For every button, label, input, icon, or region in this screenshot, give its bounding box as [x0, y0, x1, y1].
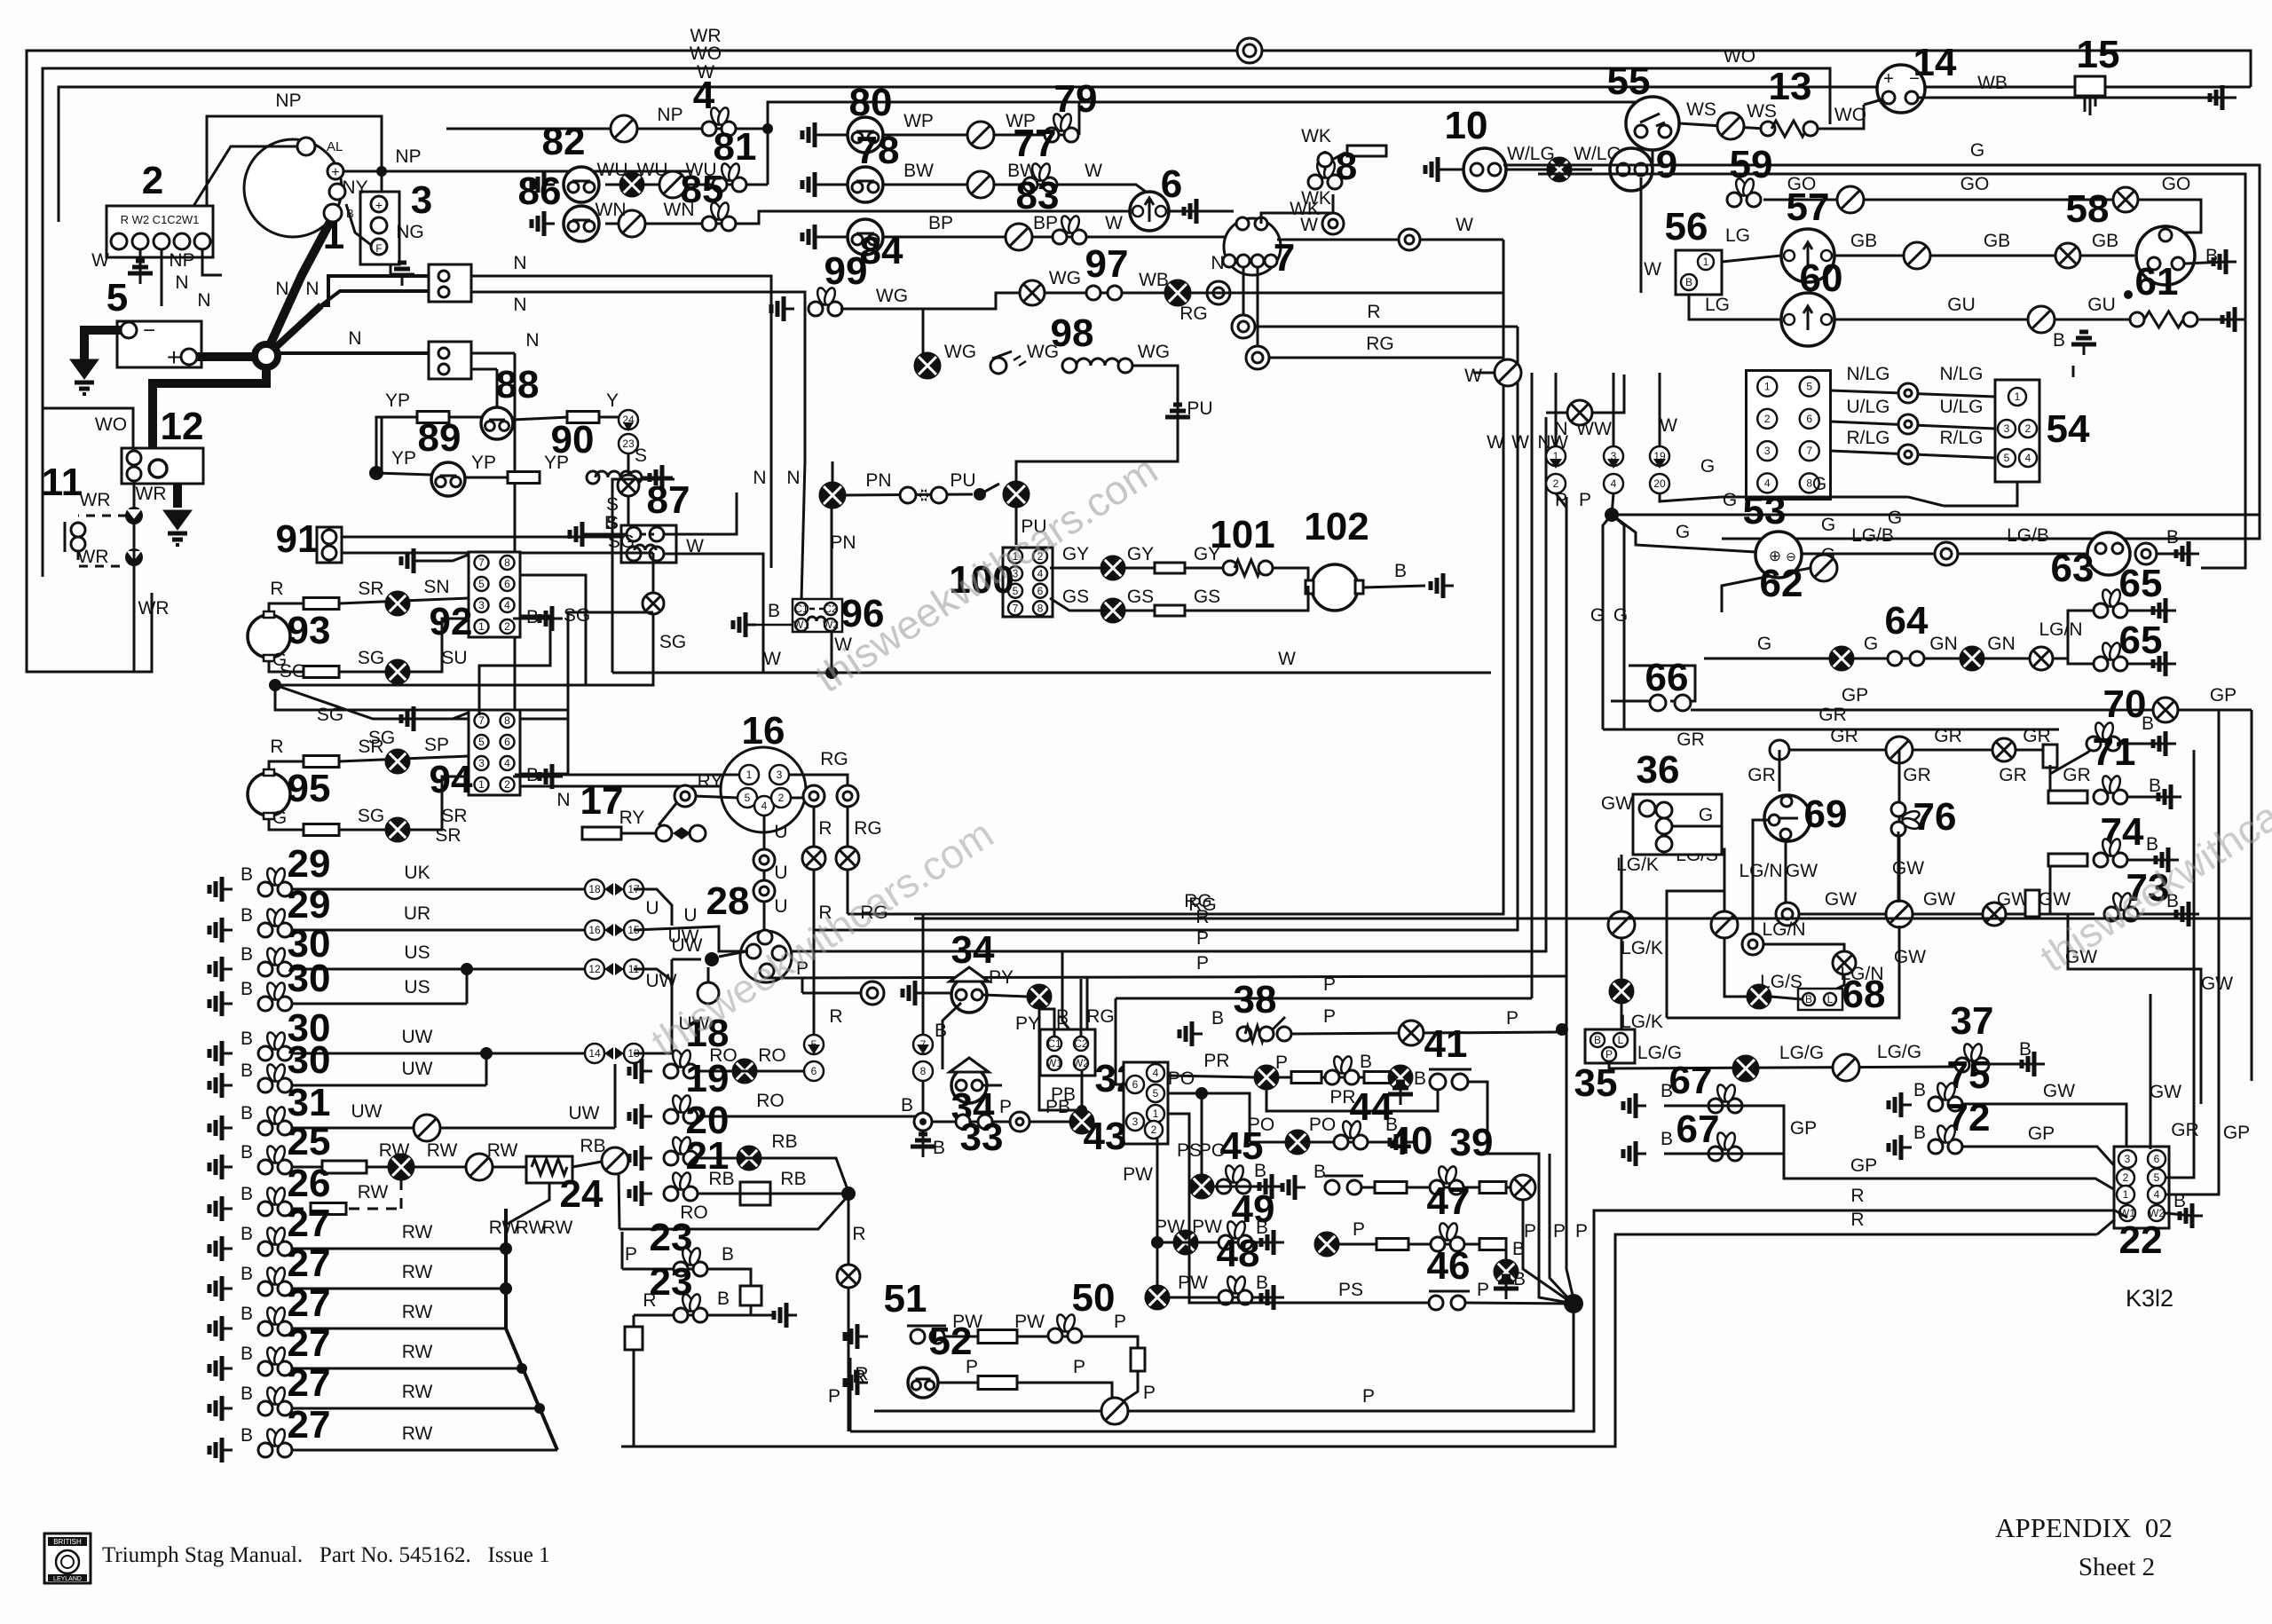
- svg-text:W: W: [1278, 649, 1296, 669]
- wire WLG row: [1506, 169, 1592, 171]
- connector 56: [1676, 250, 1722, 295]
- svg-text:56: 56: [1665, 205, 1708, 248]
- svg-text:N/LG: N/LG: [1846, 364, 1889, 384]
- bowtie 17: [673, 827, 690, 840]
- wire GR bus: [1603, 729, 2059, 731]
- wire N to 16: [515, 353, 721, 786]
- svg-text:83: 83: [1016, 174, 1060, 217]
- snap connector 83: [1053, 215, 1086, 244]
- svg-text:5: 5: [1806, 381, 1812, 393]
- pin 3 22: [2118, 1150, 2136, 1168]
- svg-text:AL: AL: [327, 139, 343, 154]
- svg-text:N: N: [305, 279, 319, 299]
- svg-text:W: W: [1594, 419, 1612, 439]
- svg-text:33: 33: [960, 1116, 1004, 1159]
- snap connector 75: [1929, 1082, 1962, 1111]
- snap connector row 27: [258, 1266, 292, 1296]
- pin 38 a: [1237, 1027, 1251, 1041]
- snap connector 59: [1727, 177, 1761, 207]
- wire G of 95: [269, 819, 304, 830]
- svg-text:GU: GU: [2087, 295, 2116, 315]
- svg-text:41: 41: [1424, 1022, 1468, 1066]
- fuse 23: [740, 1286, 761, 1305]
- svg-text:GW: GW: [1786, 861, 1818, 881]
- svg-text:55: 55: [1607, 59, 1651, 103]
- wire NG from comp1 to comp3 F: [346, 204, 371, 245]
- junction PB: [1077, 1105, 1087, 1116]
- svg-text:NP: NP: [395, 146, 421, 167]
- resistor 101: [1235, 560, 1261, 576]
- svg-text:B: B: [1414, 1068, 1426, 1089]
- wire 38 row: [1291, 1032, 1558, 1034]
- wire 101 to 102: [1273, 568, 1308, 586]
- snap connector 48: [1219, 1275, 1252, 1305]
- pin C2 87: [650, 527, 664, 541]
- svg-text:4: 4: [693, 74, 715, 117]
- ground 10: [1425, 157, 1448, 182]
- thick earth from 12: [173, 484, 182, 508]
- ring RY: [674, 785, 696, 807]
- svg-text:B: B: [1313, 1162, 1326, 1182]
- ground 70: [2153, 731, 2176, 756]
- wire G from 20: [1660, 493, 1722, 501]
- connector 35: [1585, 1029, 1635, 1063]
- ground 65b: [2153, 651, 2176, 676]
- lamp R: [802, 847, 825, 870]
- svg-text:34: 34: [951, 928, 995, 972]
- wire R from 16: [790, 785, 814, 798]
- wire 46 to junction: [1465, 1303, 1574, 1304]
- pin W2 22: [2149, 1205, 2165, 1221]
- wire GU row: [1834, 319, 2130, 321]
- svg-text:4: 4: [1764, 477, 1771, 489]
- voltage regulator 3: [360, 192, 399, 264]
- fuse 47: [1377, 1239, 1408, 1250]
- svg-text:LG/G: LG/G: [1877, 1042, 1921, 1062]
- svg-text:RB: RB: [708, 1169, 734, 1189]
- pin 34a l: [956, 989, 966, 1000]
- wire UK elbow: [634, 889, 672, 926]
- svg-text:W: W: [1085, 161, 1102, 181]
- svg-text:PY: PY: [1015, 1013, 1040, 1034]
- terminal B of 1: [324, 204, 342, 222]
- snap connector 4: [702, 106, 736, 136]
- svg-text:RW: RW: [487, 1140, 518, 1161]
- svg-text:B: B: [241, 905, 253, 926]
- svg-text:C2: C2: [1074, 1037, 1088, 1050]
- wire G diag: [1722, 568, 1810, 612]
- connector 18 17 pin a: [585, 879, 604, 899]
- svg-text:B: B: [241, 1060, 253, 1081]
- svg-text:8: 8: [920, 1065, 927, 1077]
- wire SR 95: [339, 756, 469, 761]
- svg-text:PW: PW: [1178, 1273, 1208, 1293]
- svg-text:65: 65: [2119, 619, 2163, 662]
- wire 67a row: [1664, 1106, 1784, 1154]
- svg-text:66: 66: [1645, 656, 1689, 699]
- wire N lower from blob: [278, 351, 429, 355]
- wire 48 row: [1169, 1297, 1272, 1299]
- connector 14 13 pin a: [585, 1044, 604, 1063]
- wire G 53: [1908, 497, 1944, 506]
- svg-text:⊕: ⊕: [1769, 548, 1781, 564]
- connector WS: [1717, 113, 1744, 139]
- svg-text:P: P: [1114, 1312, 1126, 1332]
- junction PW: [1151, 1236, 1164, 1249]
- junction YP: [369, 466, 383, 480]
- switch 16: [721, 747, 806, 832]
- snap connector row 30: [258, 981, 292, 1011]
- terminal AL of 1: [297, 138, 315, 155]
- wire WR bus top: [27, 51, 2251, 430]
- svg-text:P: P: [1605, 1048, 1613, 1060]
- wire GP 4 right: [2165, 710, 2219, 1194]
- wire R into W1: [2115, 1210, 2127, 1218]
- wire row 27: [293, 1288, 506, 1290]
- wire WK up2: [1324, 151, 1327, 170]
- junction 27 d: [534, 1403, 545, 1414]
- svg-text:28: 28: [706, 879, 750, 923]
- wire 7 pin to RG ring: [1242, 267, 1245, 315]
- wire PW vert: [1156, 1139, 1159, 1286]
- wire 74 row: [2050, 860, 2087, 914]
- wire BP row: [825, 236, 1225, 239]
- svg-text:5: 5: [106, 276, 128, 319]
- svg-text:5: 5: [1153, 1087, 1159, 1100]
- svg-text:R: R: [1850, 1186, 1864, 1206]
- wire PR return: [1266, 1090, 1438, 1111]
- snap connector 50: [1048, 1313, 1082, 1343]
- junction WR upper: [125, 507, 143, 524]
- fuse 50v: [1131, 1348, 1145, 1371]
- snap connector 18: [664, 1049, 698, 1078]
- svg-text:GP: GP: [2210, 685, 2236, 706]
- lamp GN: [1960, 647, 1984, 670]
- pin 1 of 16: [739, 765, 759, 784]
- svg-text:P: P: [828, 1386, 840, 1407]
- pin 1 43: [1147, 1105, 1164, 1123]
- wire YP row 89: [376, 473, 431, 475]
- wire LGK down: [1621, 855, 1623, 1029]
- motor 102: [1312, 564, 1358, 611]
- svg-text:G: G: [272, 650, 287, 670]
- wire 22 earth: [2165, 1213, 2192, 1216]
- snap connector 23b: [674, 1293, 707, 1322]
- wire row 27: [293, 1407, 540, 1410]
- svg-text:B: B: [2166, 527, 2179, 548]
- wire GW row: [1799, 913, 2094, 916]
- ground 58: [2213, 249, 2236, 274]
- snap connector 23a: [674, 1247, 707, 1276]
- snap connector row 29: [258, 867, 292, 896]
- wire SU from 92: [479, 616, 550, 715]
- svg-text:98: 98: [1051, 311, 1094, 355]
- wire R long: [1255, 326, 1518, 328]
- svg-text:77: 77: [1014, 122, 1057, 165]
- svg-text:LG/N: LG/N: [2039, 619, 2082, 640]
- wire RB from 24: [572, 1162, 602, 1167]
- svg-text:G: G: [1864, 634, 1878, 654]
- lamp SG 93: [386, 660, 409, 683]
- wire GP long: [1691, 709, 2252, 712]
- pin W1 96: [793, 619, 809, 631]
- svg-text:R/LG: R/LG: [1846, 428, 1889, 448]
- connector WU: [659, 171, 686, 198]
- svg-text:YP: YP: [471, 453, 496, 473]
- svg-text:W: W: [1660, 415, 1677, 436]
- connector 92: [469, 552, 520, 637]
- ground row 30: [209, 957, 233, 981]
- fuse 89: [508, 472, 540, 484]
- pin 7 b3: [1251, 255, 1264, 267]
- wire LGN to 68: [1830, 974, 1844, 992]
- wire GP right vert: [2251, 710, 2253, 1081]
- ring GW 69: [1776, 903, 1799, 926]
- svg-text:RW: RW: [402, 1222, 433, 1242]
- pin 14 b: [1905, 91, 1918, 104]
- svg-text:69: 69: [1804, 792, 1848, 836]
- starter solenoid 12: [122, 448, 203, 484]
- ground below 3: [390, 263, 414, 286]
- pin 13 a: [1761, 122, 1775, 136]
- svg-text:B: B: [768, 601, 780, 621]
- wire earth B 94: [513, 776, 552, 778]
- lamp PR 42: [1255, 1066, 1278, 1089]
- pin 20 trunk: [1650, 474, 1669, 493]
- junction SG: [269, 679, 281, 691]
- svg-text:70: 70: [2103, 682, 2147, 726]
- connector block N2: [429, 342, 471, 379]
- svg-text:GU: GU: [1947, 295, 1976, 315]
- svg-text:6: 6: [504, 736, 510, 748]
- snap connector 85: [702, 201, 736, 231]
- horn 95: [248, 773, 290, 816]
- svg-text:P: P: [1196, 953, 1209, 974]
- snap connector row 27: [258, 1386, 292, 1415]
- fuse 47b: [1479, 1239, 1506, 1250]
- svg-text:53: 53: [1743, 489, 1787, 532]
- ground 23: [774, 1303, 797, 1328]
- pin 23: [619, 434, 638, 453]
- svg-text:U: U: [774, 896, 787, 917]
- ring U b: [753, 880, 775, 902]
- ground 20: [629, 1146, 652, 1171]
- terminal 12 b: [127, 467, 141, 481]
- wire 39 down: [1522, 1200, 1525, 1244]
- ground 33: [911, 1134, 935, 1157]
- ring ULG: [1898, 414, 1918, 434]
- fuse 39b: [1479, 1182, 1506, 1194]
- snap connector row 26: [258, 1186, 292, 1216]
- svg-text:4: 4: [761, 800, 768, 812]
- wire RG elbow to 7 8: [848, 914, 923, 1039]
- svg-text:GW: GW: [2039, 889, 2071, 910]
- svg-text:R: R: [643, 1290, 656, 1311]
- svg-text:2: 2: [778, 792, 785, 804]
- wire 6 to ground: [1169, 210, 1196, 213]
- pin 51 b: [930, 1329, 944, 1344]
- solenoid 12 big terminal: [149, 460, 167, 477]
- svg-text:GS: GS: [1127, 587, 1154, 607]
- svg-text:RO: RO: [756, 1091, 785, 1111]
- connector RW 25: [466, 1154, 493, 1180]
- svg-text:78: 78: [856, 129, 900, 172]
- connector LGS: [1711, 911, 1738, 938]
- thick cable junction down elbow: [153, 367, 266, 448]
- wire GP bottom: [1784, 1154, 2117, 1191]
- wire RG from 16: [790, 775, 848, 785]
- terminal of 2: [111, 233, 127, 249]
- wire UR to 28: [634, 926, 748, 951]
- wire 45 row: [1213, 1186, 1272, 1188]
- thick cable battery minus to earth: [84, 330, 121, 359]
- wire RG long: [923, 369, 1503, 914]
- ground row 27: [209, 1356, 233, 1381]
- pin 58 r: [2172, 257, 2184, 270]
- ring W mid: [1399, 229, 1420, 250]
- ground row 27: [209, 1236, 233, 1261]
- svg-text:B: B: [935, 1021, 947, 1041]
- connector 12 11: [604, 963, 624, 975]
- svg-text:N: N: [753, 468, 766, 488]
- svg-text:W: W: [1487, 432, 1504, 453]
- fuse 95 bottom: [304, 824, 339, 836]
- svg-text:2: 2: [1764, 413, 1771, 425]
- pin C2 96: [824, 603, 838, 615]
- wire PU up: [1016, 417, 1178, 482]
- ground 87: [570, 522, 593, 547]
- svg-text:57: 57: [1787, 185, 1830, 229]
- fuse 93 top: [304, 598, 339, 610]
- fuse 51: [978, 1330, 1017, 1344]
- svg-text:101: 101: [1210, 513, 1274, 556]
- connector W mid: [1495, 359, 1521, 386]
- svg-text:SU: SU: [441, 648, 467, 668]
- svg-text:N: N: [197, 290, 210, 311]
- pin 36 a: [1639, 800, 1655, 816]
- ground row 30: [209, 1073, 233, 1098]
- snap connector 44: [1334, 1120, 1368, 1149]
- svg-text:29: 29: [288, 842, 331, 886]
- pin 14 a: [1882, 91, 1895, 104]
- terminal of 2: [194, 233, 210, 249]
- svg-text:R: R: [829, 1006, 842, 1027]
- starter junction blob: [255, 344, 278, 367]
- pin 1 22: [2117, 1186, 2134, 1203]
- lamp SG: [643, 593, 664, 614]
- svg-text:B: B: [2053, 330, 2065, 351]
- wire 87 C2 right: [664, 493, 737, 534]
- svg-text:RW: RW: [542, 1218, 573, 1238]
- wire G of 93: [269, 661, 304, 672]
- ring U a: [753, 849, 775, 871]
- ground 71: [2158, 784, 2181, 809]
- pin 2 of 16: [771, 788, 791, 808]
- svg-text:NP: NP: [169, 250, 194, 271]
- svg-text:102: 102: [1304, 505, 1369, 548]
- ground 47: [1494, 1276, 1519, 1299]
- svg-text:PW: PW: [1014, 1312, 1045, 1332]
- wire P long1: [790, 528, 1546, 951]
- svg-text:GB: GB: [1850, 231, 1877, 251]
- connector 22: [2114, 1147, 2169, 1228]
- connector 12 11 pin b: [624, 959, 643, 979]
- svg-text:+: +: [375, 198, 383, 212]
- svg-text:1: 1: [1153, 1108, 1159, 1120]
- svg-text:14: 14: [1913, 41, 1957, 84]
- svg-text:94: 94: [430, 758, 473, 801]
- blade 69: [1779, 817, 1798, 820]
- wire WK up: [1332, 194, 1335, 213]
- pin 66 b: [1675, 695, 1691, 711]
- fuse 93 bottom: [304, 666, 339, 678]
- svg-text:WB: WB: [1977, 73, 2008, 93]
- pin 7: [913, 1035, 933, 1054]
- svg-text:1: 1: [478, 620, 485, 633]
- wire UW elbow: [634, 981, 672, 1053]
- coil 87: [635, 545, 656, 550]
- pin W2 96: [823, 619, 839, 631]
- junction NP: [376, 166, 387, 177]
- pin 101 a: [1223, 561, 1237, 575]
- lamp GR: [1992, 738, 2016, 761]
- svg-text:65: 65: [2119, 562, 2163, 605]
- connector WN: [619, 210, 645, 237]
- wire N b down: [382, 369, 497, 473]
- ground row 29: [209, 877, 233, 902]
- svg-text:N: N: [513, 295, 526, 315]
- ground 61: [2222, 307, 2245, 332]
- svg-text:UW: UW: [402, 1059, 433, 1079]
- svg-text:SG: SG: [358, 806, 384, 826]
- svg-text:GB: GB: [1984, 231, 2010, 251]
- svg-text:APPENDIX 02: APPENDIX 02: [1995, 1512, 2173, 1543]
- lamp G 64: [1830, 647, 1853, 670]
- connector 94: [469, 710, 520, 795]
- pin 98 a: [1062, 359, 1077, 373]
- ground 38: [1179, 1021, 1203, 1046]
- wire ULG row: [1831, 422, 1995, 429]
- svg-text:B: B: [722, 1244, 734, 1265]
- connector UW: [698, 982, 719, 1004]
- svg-text:WR: WR: [136, 484, 167, 504]
- svg-text:GP: GP: [1842, 685, 1868, 706]
- snap connector WK: [1308, 160, 1342, 189]
- ground 98: [1165, 405, 1190, 428]
- svg-text:27: 27: [288, 1202, 331, 1245]
- svg-text:3: 3: [411, 178, 432, 222]
- wire P vert 34: [801, 978, 804, 993]
- svg-text:P: P: [1323, 974, 1336, 995]
- svg-text:16: 16: [742, 709, 785, 753]
- svg-text:67: 67: [1676, 1108, 1720, 1151]
- svg-text:R W2 C1C2W1: R W2 C1C2W1: [121, 213, 200, 226]
- wire WG 98 elbow: [923, 309, 941, 366]
- connector GR: [1770, 740, 1789, 760]
- wire 52 row: [939, 1383, 1112, 1407]
- ground 92: [401, 548, 424, 573]
- svg-text:LG/B: LG/B: [2007, 525, 2049, 546]
- svg-text:63: 63: [2051, 547, 2094, 590]
- svg-text:6: 6: [1161, 162, 1182, 206]
- lamp 47 r: [1495, 1260, 1518, 1283]
- svg-text:N: N: [786, 468, 800, 488]
- svg-text:5: 5: [745, 792, 751, 804]
- pin 55 a: [1635, 125, 1647, 138]
- ring 33: [1010, 1112, 1029, 1131]
- svg-text:GB: GB: [2092, 231, 2118, 251]
- snap connector 73: [2104, 892, 2138, 921]
